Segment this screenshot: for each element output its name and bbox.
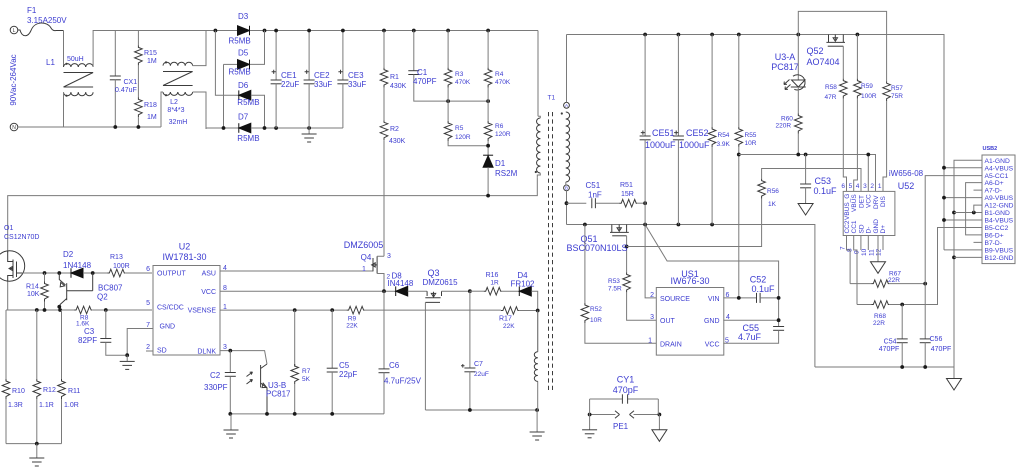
svg-text:OUT: OUT: [660, 318, 676, 325]
svg-text:IN4148: IN4148: [388, 279, 414, 288]
svg-text:3: 3: [223, 344, 227, 351]
svg-text:B1-GND: B1-GND: [985, 210, 1010, 217]
svg-text:RS2M: RS2M: [495, 169, 518, 178]
svg-text:90Vac-264Vac: 90Vac-264Vac: [9, 54, 18, 105]
svg-text:BC807: BC807: [98, 284, 123, 293]
svg-text:R12: R12: [43, 387, 56, 394]
svg-text:VSENSE: VSENSE: [188, 308, 217, 315]
svg-text:R52: R52: [590, 306, 602, 313]
svg-text:R1: R1: [390, 74, 399, 81]
svg-text:1.1R: 1.1R: [39, 402, 54, 409]
svg-text:2: 2: [146, 344, 150, 351]
svg-text:11: 11: [868, 249, 875, 256]
svg-text:R54: R54: [718, 132, 730, 139]
svg-text:VBUS: VBUS: [851, 194, 858, 212]
svg-text:DLNK: DLNK: [197, 348, 216, 355]
svg-text:33uF: 33uF: [314, 80, 332, 89]
svg-text:3.9K: 3.9K: [717, 141, 731, 148]
svg-text:3: 3: [650, 314, 654, 321]
svg-text:R57: R57: [891, 85, 903, 92]
svg-text:F1: F1: [27, 6, 37, 15]
svg-text:B5-CC2: B5-CC2: [985, 225, 1009, 232]
svg-text:1000uF: 1000uF: [679, 140, 710, 150]
svg-text:1.3R: 1.3R: [8, 402, 23, 409]
svg-text:VCC: VCC: [705, 341, 720, 348]
svg-text:33uF: 33uF: [348, 80, 366, 89]
svg-text:R3: R3: [455, 71, 464, 78]
svg-text:220R: 220R: [776, 123, 792, 130]
svg-text:L1: L1: [46, 58, 55, 67]
svg-text:Q4: Q4: [361, 253, 372, 262]
svg-text:C56: C56: [930, 336, 943, 343]
svg-text:CE1: CE1: [281, 71, 297, 80]
svg-text:7: 7: [146, 322, 150, 329]
svg-text:4.7uF: 4.7uF: [738, 332, 762, 342]
svg-text:120R: 120R: [455, 134, 471, 141]
svg-text:1M: 1M: [147, 58, 157, 65]
svg-text:R18: R18: [144, 102, 157, 109]
svg-text:PC817: PC817: [266, 390, 291, 399]
svg-text:B12-GND: B12-GND: [985, 255, 1014, 262]
svg-text:R53: R53: [608, 278, 620, 285]
svg-text:1000uF: 1000uF: [645, 140, 676, 150]
svg-text:C1: C1: [417, 68, 428, 77]
svg-text:22K: 22K: [503, 323, 515, 330]
svg-text:470K: 470K: [495, 79, 511, 86]
svg-text:22pF: 22pF: [339, 370, 357, 379]
svg-text:B: B: [565, 186, 568, 191]
svg-text:R5MB: R5MB: [229, 68, 251, 77]
svg-text:R6: R6: [495, 123, 504, 130]
svg-text:0.1uF: 0.1uF: [751, 284, 775, 294]
svg-text:ASU: ASU: [202, 270, 216, 277]
svg-text:R5MB: R5MB: [229, 37, 251, 46]
svg-text:4.7uF/25V: 4.7uF/25V: [384, 377, 422, 386]
svg-text:10: 10: [861, 248, 868, 256]
svg-text:D6: D6: [238, 81, 249, 90]
svg-text:5K: 5K: [302, 376, 311, 383]
svg-text:B9-VBUS: B9-VBUS: [985, 248, 1014, 255]
svg-text:D1: D1: [495, 159, 506, 168]
svg-text:L2: L2: [170, 99, 178, 106]
svg-text:R2: R2: [390, 126, 399, 133]
svg-text:CE52: CE52: [686, 128, 709, 138]
svg-text:C54: C54: [884, 339, 897, 346]
svg-text:1M: 1M: [147, 114, 157, 121]
svg-text:SD: SD: [157, 347, 167, 354]
svg-text:Q3: Q3: [427, 268, 439, 278]
svg-text:0.1uF: 0.1uF: [814, 186, 838, 196]
svg-text:0.47uF: 0.47uF: [115, 87, 137, 94]
svg-text:430K: 430K: [389, 138, 406, 145]
svg-text:CS/CDC: CS/CDC: [157, 304, 184, 311]
svg-text:75R: 75R: [891, 93, 903, 100]
svg-text:CC2: CC2: [844, 220, 851, 233]
svg-text:A4-VBUS: A4-VBUS: [985, 165, 1014, 172]
svg-text:3: 3: [863, 183, 867, 190]
svg-text:120R: 120R: [495, 131, 511, 138]
svg-text:1.0R: 1.0R: [64, 402, 79, 409]
svg-text:D2: D2: [63, 250, 74, 259]
svg-text:1N4148: 1N4148: [63, 261, 92, 270]
svg-text:10R: 10R: [590, 317, 602, 324]
svg-text:1R: 1R: [490, 280, 499, 287]
svg-text:82PF: 82PF: [78, 336, 97, 345]
svg-text:R5: R5: [455, 125, 464, 132]
svg-text:Q2: Q2: [97, 293, 108, 302]
svg-text:7: 7: [839, 246, 846, 250]
svg-text:R15: R15: [144, 50, 157, 57]
svg-text:B6-D+: B6-D+: [985, 233, 1004, 240]
svg-text:R16: R16: [486, 272, 499, 279]
svg-text:A: A: [565, 103, 568, 108]
svg-text:C2: C2: [210, 371, 221, 380]
svg-text:C6: C6: [389, 361, 400, 370]
svg-text:SOURCE: SOURCE: [660, 296, 690, 303]
svg-text:32mH: 32mH: [169, 119, 188, 126]
svg-text:R56: R56: [767, 188, 779, 195]
svg-text:T1: T1: [548, 95, 556, 102]
svg-text:CE51: CE51: [652, 128, 675, 138]
svg-text:SD: SD: [858, 224, 865, 233]
svg-text:iW656-08: iW656-08: [889, 169, 924, 178]
svg-text:U3-A: U3-A: [775, 52, 796, 62]
svg-text:Q52: Q52: [806, 46, 823, 56]
svg-text:CE2: CE2: [314, 71, 330, 80]
svg-text:OUTPUT: OUTPUT: [157, 270, 187, 277]
svg-text:22K: 22K: [346, 323, 358, 330]
svg-text:PC817: PC817: [771, 62, 799, 72]
svg-text:4: 4: [856, 183, 860, 190]
svg-text:R14: R14: [26, 284, 39, 291]
svg-text:470pF: 470pF: [613, 385, 639, 395]
svg-text:A7-D-: A7-D-: [985, 188, 1002, 195]
svg-text:R55: R55: [745, 132, 757, 139]
svg-text:AO7404: AO7404: [806, 57, 839, 67]
svg-text:D5: D5: [238, 48, 249, 57]
svg-text:L: L: [13, 28, 16, 34]
svg-text:22uF: 22uF: [474, 371, 489, 378]
svg-text:R60: R60: [781, 116, 793, 123]
svg-text:VCC: VCC: [201, 289, 216, 296]
svg-text:5: 5: [146, 300, 150, 307]
svg-text:430K: 430K: [390, 83, 407, 90]
svg-text:330PF: 330PF: [204, 383, 228, 392]
svg-text:1K: 1K: [768, 201, 777, 208]
svg-text:VBUS_G: VBUS_G: [844, 194, 851, 220]
svg-text:12: 12: [876, 248, 883, 256]
svg-text:50uH: 50uH: [67, 56, 84, 63]
svg-text:U2: U2: [179, 242, 191, 252]
svg-text:R5MB: R5MB: [237, 134, 259, 143]
svg-text:1: 1: [878, 183, 882, 190]
svg-text:IW676-30: IW676-30: [670, 276, 709, 286]
svg-text:C52: C52: [750, 275, 767, 285]
svg-text:D-: D-: [866, 227, 873, 234]
svg-text:C53: C53: [815, 176, 832, 186]
svg-text:O1: O1: [4, 225, 13, 232]
svg-text:10K: 10K: [27, 291, 40, 298]
svg-text:100R: 100R: [861, 93, 877, 100]
svg-text:2: 2: [870, 183, 874, 190]
svg-text:D7: D7: [238, 112, 249, 121]
svg-text:R7: R7: [302, 368, 311, 375]
svg-text:22R: 22R: [888, 277, 900, 284]
svg-text:U52: U52: [898, 181, 915, 191]
svg-text:1: 1: [648, 338, 652, 345]
svg-text:8*4*3: 8*4*3: [167, 107, 184, 114]
svg-text:DRAIN: DRAIN: [660, 341, 682, 348]
svg-text:DMZ6005: DMZ6005: [344, 240, 384, 250]
svg-text:R11: R11: [68, 388, 80, 395]
svg-text:CY1: CY1: [617, 375, 635, 385]
svg-text:CC1: CC1: [851, 220, 858, 233]
svg-text:1: 1: [362, 266, 366, 273]
svg-text:FR102: FR102: [510, 280, 535, 289]
svg-text:R4: R4: [495, 71, 504, 78]
svg-text:A5-CC1: A5-CC1: [985, 173, 1009, 180]
svg-text:R5MB: R5MB: [237, 98, 259, 107]
svg-text:A9-VBUS: A9-VBUS: [985, 195, 1014, 202]
svg-text:CX1: CX1: [124, 79, 138, 86]
svg-text:B4-VBUS: B4-VBUS: [985, 218, 1014, 225]
svg-text:GND: GND: [704, 318, 720, 325]
svg-text:B7-D-: B7-D-: [985, 240, 1002, 247]
svg-text:VIN: VIN: [708, 296, 720, 303]
svg-text:470K: 470K: [455, 79, 471, 86]
svg-text:D3: D3: [238, 12, 249, 21]
svg-text:R68: R68: [874, 313, 886, 320]
svg-text:DRV: DRV: [873, 195, 880, 209]
svg-text:100R: 100R: [113, 263, 130, 270]
svg-text:7.5R: 7.5R: [608, 286, 622, 293]
svg-text:C7: C7: [474, 361, 483, 368]
svg-text:R17: R17: [499, 316, 512, 323]
svg-text:D+: D+: [880, 225, 887, 234]
svg-text:1nF: 1nF: [588, 191, 602, 200]
svg-text:470PF: 470PF: [931, 346, 952, 353]
svg-text:22uF: 22uF: [281, 80, 299, 89]
svg-text:R13: R13: [110, 254, 123, 261]
svg-text:R10: R10: [12, 388, 25, 395]
svg-text:DMZ0615: DMZ0615: [422, 278, 458, 287]
svg-text:470PF: 470PF: [879, 346, 900, 353]
svg-text:10R: 10R: [745, 140, 757, 147]
svg-text:22R: 22R: [873, 320, 885, 327]
svg-text:6: 6: [146, 266, 150, 273]
svg-text:3: 3: [387, 253, 391, 260]
svg-text:PE1: PE1: [613, 422, 629, 431]
svg-text:CS12N70D: CS12N70D: [4, 234, 39, 241]
svg-text:A1-GND: A1-GND: [985, 158, 1010, 165]
svg-text:R51: R51: [620, 182, 633, 189]
svg-text:USB2: USB2: [983, 146, 998, 152]
svg-text:C5: C5: [339, 361, 350, 370]
svg-text:C51: C51: [586, 181, 601, 190]
svg-text:C3: C3: [84, 327, 95, 336]
svg-text:15R: 15R: [621, 191, 634, 198]
svg-text:DET: DET: [858, 195, 865, 208]
svg-text:R58: R58: [825, 84, 837, 91]
svg-text:N: N: [12, 125, 16, 131]
svg-text:A12-GND: A12-GND: [985, 203, 1014, 210]
svg-text:6: 6: [841, 183, 845, 190]
svg-text:VCC: VCC: [866, 194, 873, 208]
svg-text:GND: GND: [873, 219, 880, 234]
svg-text:47R: 47R: [825, 94, 837, 101]
svg-text:CE3: CE3: [348, 71, 364, 80]
svg-text:GND: GND: [160, 323, 176, 330]
svg-text:5: 5: [849, 183, 853, 190]
svg-text:BSC070N10LS: BSC070N10LS: [566, 243, 627, 253]
svg-text:DIS: DIS: [880, 196, 887, 208]
svg-text:R59: R59: [861, 83, 873, 90]
svg-text:470PF: 470PF: [413, 77, 437, 86]
svg-text:IW1781-30: IW1781-30: [162, 252, 206, 262]
svg-text:R9: R9: [348, 316, 357, 323]
svg-text:A6-D+: A6-D+: [985, 180, 1004, 187]
